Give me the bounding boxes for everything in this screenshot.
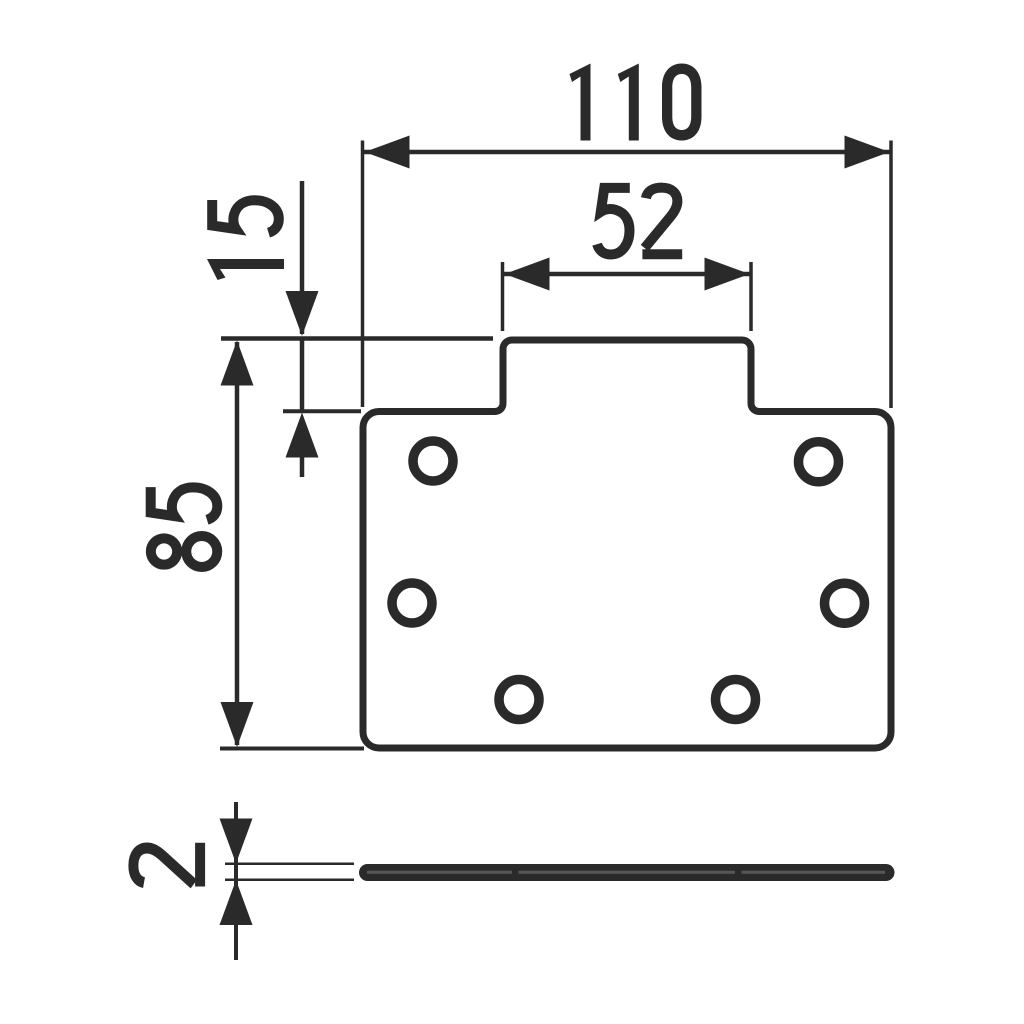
dimension 52 label "52" xyxy=(597,188,682,255)
dimension 52 line xyxy=(504,272,750,277)
extension line at plate top level xyxy=(283,409,361,413)
dimension 110 arrow right xyxy=(845,136,890,169)
dimension 15 line lower tail xyxy=(300,456,305,477)
dimension 2 label "2" rotated xyxy=(133,843,200,887)
hole bottom-right xyxy=(716,680,756,720)
dimension 15 line upper xyxy=(300,181,305,334)
hole top-right xyxy=(799,442,839,482)
dimension 15 label "15" rotated xyxy=(207,200,284,280)
dimension 52 arrow right xyxy=(705,258,750,291)
dimension 110 extension line right xyxy=(889,141,893,409)
dimension 2 extension line top xyxy=(225,863,354,866)
side view bar core line segment 2 xyxy=(519,871,736,874)
side view bar core line segment 3 xyxy=(742,871,886,874)
hole mid-right xyxy=(825,583,865,623)
hole top-left xyxy=(413,441,453,481)
plate outline (front view) xyxy=(363,340,891,748)
dimension 85 arrow up xyxy=(221,341,254,386)
dimension 15 arrow down xyxy=(286,291,319,336)
dimension 110 line xyxy=(364,150,890,155)
side view bar core line segment 1 xyxy=(367,871,512,874)
dimension 110 extension line left xyxy=(361,141,365,408)
extension line at tab top level xyxy=(221,336,493,341)
dimension 85 arrow down xyxy=(221,702,254,747)
dimension 2 arrow down xyxy=(220,819,253,864)
dimension 15 line middle (between arrows) xyxy=(300,338,305,412)
dimension 52 extension line left xyxy=(501,262,505,331)
dimension 110 label "110" xyxy=(570,64,702,141)
dimension 2 arrow up xyxy=(220,880,253,925)
dimension 52 extension line right xyxy=(749,262,753,331)
dimension 110 arrow left xyxy=(365,136,410,169)
side view bar xyxy=(363,868,892,878)
hole bottom-left xyxy=(499,680,539,720)
dimension 2 extension line bottom xyxy=(225,879,354,882)
dimension 85 line xyxy=(235,342,240,745)
hole mid-left xyxy=(392,583,432,623)
dimension 52 arrow left xyxy=(505,258,550,291)
extension line at plate bottom level xyxy=(220,747,364,751)
dimension 85 label "85" rotated xyxy=(151,487,218,567)
dimension 2 line xyxy=(234,802,238,960)
dimension 15 arrow up xyxy=(286,413,319,458)
